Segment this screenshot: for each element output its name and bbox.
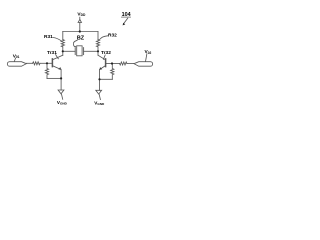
wire right column to collector — [97, 47, 99, 55]
crystal BZ — [74, 48, 76, 55]
wire bias bottom left — [47, 77, 61, 79]
arrow 104 — [124, 18, 128, 23]
svg-text:Tr31: Tr31 — [47, 50, 57, 56]
resistor R31 — [61, 40, 64, 47]
svg-text:R31: R31 — [44, 34, 53, 40]
svg-text:BZ: BZ — [77, 36, 85, 42]
svg-text:V02: V02 — [145, 49, 152, 55]
junction node dots — [79, 30, 81, 32]
wire VDD rail — [63, 31, 98, 33]
leader R31 — [53, 38, 61, 41]
ground VGND right — [96, 90, 102, 94]
power VDD terminal symbol — [79, 17, 81, 19]
svg-text:VGND: VGND — [57, 100, 68, 106]
wire bias bottom right — [100, 78, 113, 80]
leader Tr32 — [103, 55, 105, 59]
wire base right — [106, 63, 119, 65]
wire emitter right — [99, 70, 101, 91]
wire crystal left — [63, 50, 75, 52]
svg-text:VDD: VDD — [77, 12, 86, 18]
resistor series right — [120, 62, 127, 65]
ground VGND left — [58, 90, 64, 94]
svg-text:Tr32: Tr32 — [101, 50, 111, 56]
leader Tr31 — [56, 55, 59, 59]
leader BZ — [73, 40, 77, 46]
wire left column top — [62, 32, 64, 40]
wire to input terminal left — [26, 62, 32, 64]
resistor bias right — [111, 64, 114, 80]
resistor series left — [33, 62, 40, 65]
svg-text:R32: R32 — [108, 32, 117, 38]
arrowhead of 104 arrow — [123, 23, 126, 26]
svg-text:104: 104 — [122, 12, 131, 18]
wire crystal right — [84, 50, 98, 52]
wire right column top — [97, 32, 99, 40]
resistor bias left — [45, 63, 48, 78]
transistor Tr31 — [53, 55, 63, 59]
svg-text:VGND: VGND — [94, 101, 105, 107]
terminal VI1 flag — [7, 62, 26, 66]
svg-text:V01: V01 — [13, 53, 20, 59]
terminal VI2 flag — [134, 62, 153, 66]
wire emitter left — [60, 70, 62, 91]
leader R32 — [99, 36, 107, 40]
resistor R32 — [96, 40, 99, 47]
wire left column to collector — [62, 47, 64, 55]
wire VDD stem — [79, 23, 81, 32]
transistor Tr32 — [98, 55, 105, 59]
wire to input terminal right — [127, 63, 134, 65]
wire base left — [40, 62, 52, 64]
